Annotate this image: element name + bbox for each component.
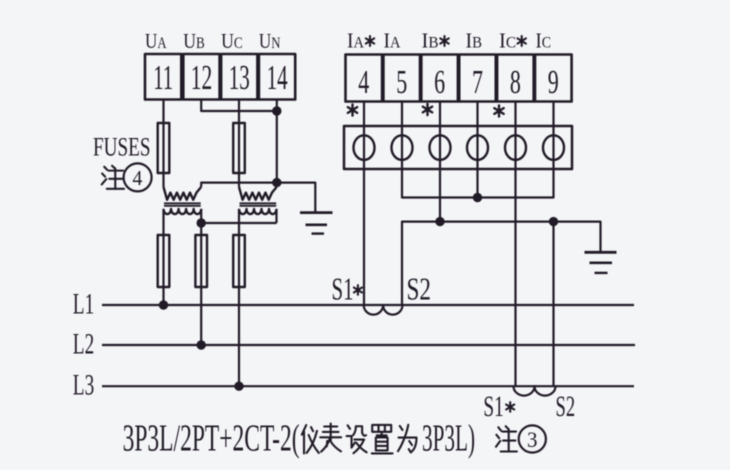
line L3 xyxy=(102,385,634,387)
svg-text:11: 11 xyxy=(153,59,173,97)
terminal screw xyxy=(354,135,375,160)
terminal screw xyxy=(392,135,413,160)
svg-text:14: 14 xyxy=(267,59,288,97)
wire L2 node through fuse to L2 xyxy=(200,223,202,345)
svg-text:8: 8 xyxy=(510,64,521,101)
junction xyxy=(549,217,558,226)
meter voltage terminal box 14 xyxy=(259,54,295,100)
wire PT2 primary right down xyxy=(275,209,277,223)
hanzi she xyxy=(347,425,367,453)
svg-text:FUSES: FUSES xyxy=(93,132,151,162)
hanzi zhu (note3) xyxy=(496,426,517,451)
terminal screw xyxy=(467,135,488,160)
CT1 secondary on L1 xyxy=(364,305,403,315)
note 4 circle xyxy=(124,163,152,191)
svg-text:L2: L2 xyxy=(73,327,94,360)
svg-text:6: 6 xyxy=(434,64,445,101)
junction xyxy=(197,218,206,227)
wire CT2 S2 riser xyxy=(552,222,554,387)
fuse F5 xyxy=(233,235,245,287)
fuse F3 xyxy=(158,235,170,287)
polarity mark terminal 4 xyxy=(351,104,353,115)
hanzi wei xyxy=(398,425,417,453)
meter current terminal box 5 xyxy=(383,55,420,102)
wire UN: terminal 14 down to common node xyxy=(276,100,278,187)
ground (PT secondary common) xyxy=(300,211,333,214)
asterisk label IA* xyxy=(369,36,371,46)
svg-text:S2: S2 xyxy=(407,272,432,307)
PT U1 core xyxy=(164,202,201,204)
terminal screw xyxy=(543,135,564,160)
junction xyxy=(473,193,482,202)
svg-text:3P3L): 3P3L) xyxy=(422,418,475,460)
svg-text:5: 5 xyxy=(396,64,407,101)
wire PT1 primary left to fuse to L1 xyxy=(162,209,164,305)
svg-text:S2: S2 xyxy=(556,390,576,423)
svg-text:13: 13 xyxy=(229,59,250,97)
meter current terminal box 9 xyxy=(535,55,572,102)
wire IB*: terminal 6 to S2 bus xyxy=(439,102,441,222)
hanzi zhi xyxy=(372,425,393,454)
hanzi yi xyxy=(302,425,319,453)
svg-text:4: 4 xyxy=(132,166,142,190)
meter voltage terminal box 11 xyxy=(145,54,181,100)
meter current terminal box 4 xyxy=(346,55,383,102)
meter current terminal box 7 xyxy=(459,55,496,102)
junction xyxy=(435,217,444,226)
svg-text:7: 7 xyxy=(472,64,483,101)
terminal screw block xyxy=(344,126,572,169)
svg-text:4: 4 xyxy=(358,64,369,101)
wire common node to earth xyxy=(201,183,315,212)
svg-text:12: 12 xyxy=(191,59,213,97)
meter voltage terminal box 12 xyxy=(183,54,219,100)
wire IC*: terminal 8 to CT2 S1 xyxy=(514,102,516,387)
wire PT2 primary left through fuse to L3 xyxy=(238,209,240,386)
svg-text:3P3L/2PT+2CT-2(: 3P3L/2PT+2CT-2( xyxy=(123,418,300,460)
wire PT1 primary right to L2 node xyxy=(200,209,202,223)
terminal screw xyxy=(430,135,451,160)
polarity mark terminal 8 xyxy=(498,105,500,116)
wire IA/IB/IC return bus: terminals 5,7,9 xyxy=(402,102,554,198)
wire UA: terminal 11 through fuse to PT1 primary left xyxy=(162,100,164,187)
meter voltage terminal box 13 xyxy=(221,54,257,100)
wire UB: terminal 12 jog to UN column xyxy=(201,100,277,111)
PT U2 primary winding xyxy=(239,209,277,214)
meter current terminal box 6 xyxy=(421,55,458,102)
PT U1 secondary winding xyxy=(164,187,202,200)
fuse F2 xyxy=(233,123,245,173)
hanzi biao xyxy=(320,424,341,452)
asterisk label IC* xyxy=(521,36,523,46)
svg-text:9: 9 xyxy=(548,64,559,101)
line L2 xyxy=(102,344,635,346)
svg-text:L1: L1 xyxy=(73,287,94,320)
wire IB return: terminal 7 xyxy=(476,102,478,198)
terminal screw xyxy=(505,135,526,160)
asterisk label S1* CT1 xyxy=(357,285,359,295)
junction xyxy=(234,382,243,391)
polarity mark terminal 6 xyxy=(426,104,428,115)
fuse F4 xyxy=(195,235,207,287)
fuse F1 xyxy=(158,123,170,173)
junction xyxy=(159,300,168,309)
PT U2 secondary winding xyxy=(239,187,277,200)
wire UC: terminal 13 through fuse to PT2 primary left xyxy=(238,100,240,187)
S2 bus: CT1 S2 to earth xyxy=(402,222,601,305)
svg-text:L3: L3 xyxy=(73,368,94,401)
ground (CT secondary common) xyxy=(585,251,617,254)
PT U1 primary winding xyxy=(164,209,202,214)
svg-text:3: 3 xyxy=(527,427,538,452)
CT2 secondary on L3 xyxy=(514,386,556,395)
wire IA*: terminal 4 to CT1 S1 xyxy=(363,102,365,306)
junction xyxy=(272,178,281,187)
note 3 circle xyxy=(519,425,546,452)
svg-text:S1: S1 xyxy=(483,390,503,423)
line L1 xyxy=(102,304,634,306)
wire L2 node to PT2 primary right xyxy=(201,222,276,224)
asterisk label S1* CT2 xyxy=(509,402,511,412)
junction xyxy=(197,340,206,349)
junction xyxy=(272,106,281,115)
hanzi zhu (note4) xyxy=(102,166,124,189)
asterisk label IB* xyxy=(443,36,445,46)
meter current terminal box 8 xyxy=(497,55,534,102)
PT U2 core xyxy=(240,202,277,204)
svg-text:S1: S1 xyxy=(332,272,354,307)
